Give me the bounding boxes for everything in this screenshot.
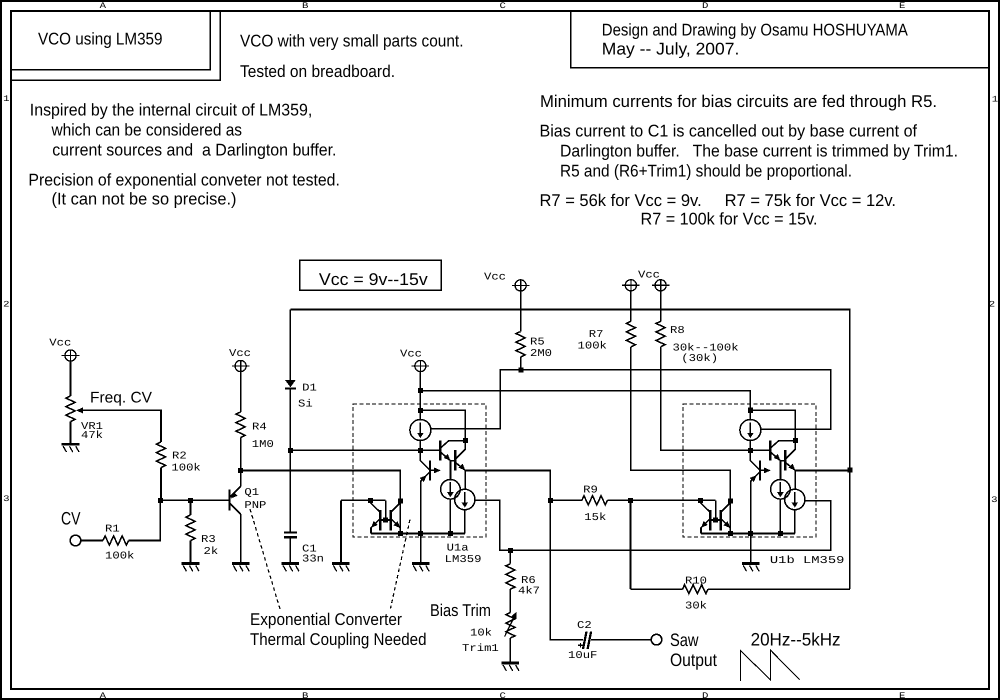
svg-text:A: A [100, 691, 108, 700]
wire U1a mirror input [341, 499, 386, 501]
svg-text:CV: CV [61, 509, 81, 529]
ground (C1) [282, 564, 300, 572]
U1a junction mirror-left collector [368, 498, 373, 503]
U1a mirror-right emitter [391, 519, 401, 534]
U1a PNP emitter diagonal [421, 472, 430, 534]
U1a mirror-right collector [391, 501, 401, 512]
U1b NPN1 emitter diagonal [770, 452, 780, 461]
U1a junction mirror-right collector [398, 498, 403, 503]
junction node U1b top [748, 408, 753, 413]
wire R4 to Q1 emitter node [240, 438, 242, 471]
U1b wire CS1 top branch to collector rail [750, 410, 795, 450]
leader to mirror pair [391, 520, 411, 609]
resistor R9 15k [582, 496, 608, 505]
svg-text:Output: Output [670, 650, 717, 670]
wire R5 to bias node [520, 357, 522, 370]
U1a transistor NPN1 base bar [439, 441, 441, 461]
U1b junction rail left [728, 531, 733, 536]
U1b junction CS1 top branch [748, 408, 753, 413]
U1b current source CS1 [740, 420, 761, 441]
wire C2 node to R9 [550, 499, 582, 501]
svg-text:R1: R1 [105, 524, 120, 536]
U1b wire CS2 to rail [779, 499, 781, 533]
ground (Trim1) [502, 663, 520, 671]
U1a junction CS1 top branch [418, 408, 423, 413]
wire U1a NPN2 emitter to C2 node [465, 471, 550, 501]
junction node R9/R10 [628, 498, 633, 503]
wire R9 to U1b mirror input [607, 499, 715, 501]
wire wiper to R2 [82, 410, 161, 442]
svg-text:B: B [302, 1, 308, 11]
U1b junction input node [748, 448, 753, 453]
U1a wire NPN1 emitter to NPN2 base [451, 460, 456, 462]
U1a mirror-left emitter arrow [371, 521, 378, 528]
svg-text:Precision of exponential conve: Precision of exponential conveter not te… [28, 171, 340, 190]
U1b junction collector rail [793, 438, 798, 443]
svg-text:2M0: 2M0 [530, 348, 552, 360]
U1b NPN1 emitter arrow [774, 454, 781, 461]
U1b mirror base link [710, 519, 721, 521]
trimmer Trim1 10k [505, 612, 517, 638]
U1b transistor PNP base bar [759, 460, 761, 480]
wire U1b top corner [749, 391, 751, 411]
svg-text:100k: 100k [171, 463, 200, 475]
wire R2 to base node [160, 468, 162, 501]
potentiometer VR1 47k [66, 396, 75, 422]
svg-text:Bias current to C1 is cancelle: Bias current to C1 is cancelled out by b… [540, 122, 918, 141]
wire C2 to output [591, 639, 651, 641]
svg-text:R7: R7 [589, 329, 604, 341]
U1b wire CS3 to rail [794, 510, 796, 534]
U1b ground [742, 564, 760, 572]
resistor R5 2M0 [516, 332, 525, 358]
svg-text:VCO with very small parts coun: VCO with very small parts count. [240, 32, 464, 51]
Q1 emitter arrow (PNP) [231, 492, 238, 499]
U1b emitter rail [701, 533, 795, 535]
U1a junction input node [418, 448, 423, 453]
resistor R3 2k [186, 515, 195, 541]
svg-text:10uF: 10uF [568, 650, 597, 662]
svg-text:1: 1 [3, 94, 9, 104]
wire D1 cathode to C1 [289, 388, 291, 531]
U1b wire rail to ground [750, 534, 752, 564]
wire C2 node down [550, 500, 583, 639]
U1a wire top feed [419, 391, 421, 420]
wire Q1 emitter up [240, 471, 242, 487]
wire U1a CS3 out [475, 500, 831, 550]
svg-text:2: 2 [3, 300, 9, 310]
U1b wire NPN1 emitter to CS2 [780, 461, 782, 480]
U1b PNP emitter diagonal [751, 472, 760, 534]
svg-text:20Hz--5kHz: 20Hz--5kHz [751, 630, 841, 650]
U1a wire rail to ground [420, 534, 422, 564]
U1b transistor mirror-right base bar [720, 510, 722, 531]
U1b wire CS1 to input node [749, 441, 751, 451]
wire Q1 collector to ground [240, 514, 242, 563]
junction node R5 bias [518, 367, 523, 372]
U1a wire NPN1 emitter to CS2 [450, 461, 452, 480]
svg-text:Vcc: Vcc [484, 272, 506, 284]
wire base rail to Q1 [160, 499, 229, 501]
svg-text:3: 3 [991, 495, 997, 505]
U1a NPN2 emitter diagonal [455, 462, 465, 470]
wire Vcc to VR1 [70, 361, 72, 396]
U1b junction mirror-right collector [728, 498, 733, 503]
wire Q1 node to U1a mirror [241, 471, 401, 501]
U1b dashed boundary [683, 404, 816, 537]
transistor Q1 base bar [228, 489, 230, 510]
U1a junction rail right [448, 531, 453, 536]
svg-text:R4: R4 [252, 422, 267, 434]
svg-text:Minimum currents for bias circ: Minimum currents for bias circuits are f… [540, 92, 937, 111]
U1b NPN1 collector [770, 441, 795, 449]
U1a current source CS3 [455, 489, 475, 509]
svg-text:Thermal Coupling Needed: Thermal Coupling Needed [250, 630, 427, 649]
svg-text:which can be considered as: which can be considered as [51, 121, 242, 140]
U1b junction rail right [778, 531, 783, 536]
wire to R10 [631, 588, 683, 590]
svg-text:4k7: 4k7 [518, 586, 540, 598]
output terminal Saw [651, 634, 662, 645]
svg-text:1: 1 [992, 95, 998, 105]
svg-text:Saw: Saw [670, 630, 699, 650]
junction node R1/R2 [158, 498, 163, 503]
junction node U1a top [418, 388, 423, 393]
U1b junction mirror base [713, 518, 718, 523]
svg-text:Darlington buffer. The base: Darlington buffer. The base current is t… [560, 142, 958, 161]
U1b wire top feed [749, 391, 751, 420]
wire Vcc to U1a top [419, 372, 421, 391]
svg-text:Exponential Converter: Exponential Converter [250, 610, 402, 629]
U1b transistor NPN1 base bar [769, 441, 771, 461]
wire bias to U1b CS [521, 370, 831, 429]
wire VR1 to ground [70, 422, 72, 445]
U1a junction mirror base [383, 518, 388, 523]
svg-text:C2: C2 [577, 620, 592, 632]
U1a wire mirror base to input wire [385, 500, 387, 520]
svg-text:D: D [702, 691, 708, 700]
resistor R4 1M0 [236, 412, 245, 438]
wire mirror input to ground [340, 500, 342, 563]
svg-text:A: A [100, 1, 108, 11]
wire R1 to corner up [129, 500, 161, 540]
wire R9 node down to R10 [630, 500, 632, 589]
U1a NPN1 emitter arrow [444, 454, 451, 461]
wire top rail from D1 [290, 310, 850, 471]
wire Vcc rail to U1b [420, 391, 750, 411]
wire D1 anode [289, 310, 291, 380]
U1a PNP emitter arrow [420, 475, 427, 482]
power Vcc symbol (R4) [232, 360, 250, 371]
U1b wire NPN1 emitter to NPN2 base [781, 460, 786, 462]
wire C1 to ground [289, 538, 291, 563]
svg-text:R10: R10 [685, 576, 707, 588]
wire Vcc to R7 [630, 291, 632, 321]
wire Vcc to R5 [520, 291, 522, 332]
U1b current source CS3 [785, 489, 805, 509]
U1a NPN2 collector diagonal [455, 449, 465, 459]
U1a junction rail left [398, 531, 403, 536]
svg-text:100k: 100k [105, 551, 134, 563]
wire CV terminal to R1 [81, 540, 103, 542]
wire U1b NPN2 emitter to right rail [795, 470, 850, 472]
svg-text:R9: R9 [583, 485, 598, 497]
U1a transistor mirror-right base bar [390, 510, 392, 531]
U1a ground [412, 564, 430, 572]
U1a PNP base lead arrow [430, 468, 441, 474]
U1b NPN2 collector diagonal [785, 449, 795, 459]
U1a mirror-right emitter arrow [393, 521, 400, 528]
svg-text:E: E [899, 691, 905, 700]
svg-text:R7 = 56k for Vcc = 9v. R7: R7 = 56k for Vcc = 9v. R7 = 75k for Vcc … [540, 191, 897, 210]
wire bias to U1a CS [431, 370, 521, 429]
svg-text:Vcc: Vcc [638, 270, 660, 282]
U1a wire input node to PNP collector [420, 450, 430, 470]
U1b mirror-left emitter arrow [701, 521, 708, 528]
U1a mirror-left collector [370, 500, 380, 512]
U1b PNP emitter arrow [750, 475, 757, 482]
junction node C2 tap [548, 498, 553, 503]
wire R10 to right rail [708, 588, 850, 590]
svg-text:Si: Si [298, 399, 313, 411]
power Vcc symbol (R5) [512, 280, 530, 291]
sawtooth waveform symbol [740, 650, 799, 681]
svg-text:10k: 10k [470, 628, 492, 640]
junction node U1b input [748, 448, 753, 453]
U1a wire NPN2 emitter to CS3 [464, 471, 466, 490]
junction node Q1 emitter [238, 468, 243, 473]
svg-text:U1b LM359: U1b LM359 [770, 555, 845, 567]
svg-text:3: 3 [3, 494, 9, 504]
U1a mirror-left emitter [371, 519, 380, 534]
svg-text:R3: R3 [201, 534, 216, 546]
wire to R3 [190, 500, 192, 515]
resistor R8 30k [656, 321, 665, 347]
svg-text:(It can not be so precise.): (It can not be so precise.) [52, 190, 237, 209]
svg-text:C: C [500, 691, 506, 700]
svg-text:Vcc: Vcc [229, 348, 251, 360]
U1b junction rail center [748, 531, 753, 536]
title box outer rect [11, 11, 220, 80]
ground (U1a input) [332, 564, 350, 572]
svg-text:33n: 33n [302, 554, 324, 566]
svg-text:R8: R8 [670, 325, 685, 337]
wire Trim1 to ground [509, 638, 511, 663]
svg-text:Design and Drawing by Osamu HO: Design and Drawing by Osamu HOSHUYAMA [602, 21, 909, 40]
junction node right rail [847, 468, 852, 473]
svg-text:VCO using LM359: VCO using LM359 [38, 30, 163, 49]
resistor R1 100k [103, 536, 129, 545]
U1a junction collector rail [463, 438, 468, 443]
svg-text:Tested on breadboard.: Tested on breadboard. [240, 62, 395, 81]
U1b wire collector drop [729, 501, 731, 534]
power Vcc symbol (U1a/U1b) [412, 360, 430, 371]
ground (Q1) [232, 564, 250, 572]
U1a emitter rail [371, 533, 465, 535]
power Vcc symbol (VR1) [62, 350, 80, 361]
resistor R10 30k [683, 585, 709, 594]
U1b NPN2 emitter arrow [789, 464, 796, 471]
svg-text:D1: D1 [302, 383, 317, 395]
U1a wire collector drop [399, 501, 401, 534]
capacitor C1 33n [284, 533, 297, 538]
wire Vcc to R4 [240, 372, 242, 412]
svg-text:Inspired by the internal circu: Inspired by the internal circuit of LM35… [30, 101, 313, 120]
junction node R3 tap [188, 498, 193, 503]
U1a NPN1 collector [440, 441, 465, 449]
U1a mirror base link [380, 519, 391, 521]
svg-text:D: D [702, 1, 708, 11]
wire R7 to U1b mirror [631, 347, 730, 501]
wire R6 tap down [509, 550, 511, 563]
svg-text:(30k): (30k) [681, 353, 718, 365]
U1b transistor mirror-left base bar [709, 510, 711, 531]
svg-text:15k: 15k [584, 512, 606, 524]
U1b mirror-right emitter arrow [723, 521, 730, 528]
svg-text:C: C [500, 1, 506, 11]
U1b mirror-right emitter [721, 519, 731, 534]
U1a NPN1 emitter diagonal [440, 452, 450, 461]
svg-text:47k: 47k [81, 430, 103, 442]
wire R3 to ground [190, 541, 192, 564]
U1a current source CS1 [410, 420, 431, 441]
U1b NPN2 emitter diagonal [785, 462, 795, 470]
svg-text:U1a: U1a [447, 543, 469, 555]
resistor R6 4k7 [506, 564, 515, 590]
svg-text:Vcc: Vcc [49, 338, 71, 350]
U1a wire CS1 to input node [419, 441, 421, 451]
svg-text:Freq. CV: Freq. CV [90, 390, 153, 407]
svg-text:LM359: LM359 [445, 554, 482, 566]
svg-text:R5 and (R6+Trim1) should be pr: R5 and (R6+Trim1) should be proportional… [560, 162, 852, 181]
wire right rail [849, 470, 851, 589]
VR1 wiper arrow [76, 408, 83, 414]
U1a dashed boundary [353, 404, 486, 537]
Q1 collector diagonal [230, 503, 241, 514]
power Vcc symbol (R7) [622, 280, 640, 291]
svg-text:current sources and a Darling: current sources and a Darlington buffer. [52, 140, 336, 159]
svg-text:E: E [899, 1, 905, 11]
Q1 emitter diagonal [230, 486, 241, 497]
svg-text:2k: 2k [204, 546, 219, 558]
U1b PNP base lead arrow [760, 468, 771, 474]
wire D1 node to U1a input [290, 449, 440, 451]
U1a wire CS3 to rail [464, 510, 466, 534]
ground (R3) [182, 564, 200, 572]
resistor R2 100k [157, 442, 166, 468]
capacitor C2 10uF [578, 632, 591, 650]
svg-text:1M0: 1M0 [252, 439, 274, 451]
wire R6 to Trim1 [509, 589, 511, 612]
U1a NPN2 emitter arrow [459, 464, 466, 471]
U1a transistor PNP base bar [429, 460, 431, 480]
junction node R6 tap [508, 548, 513, 553]
U1b wire input node to PNP collector [750, 450, 760, 470]
U1a transistor NPN2 base bar [454, 450, 456, 471]
svg-text:R2: R2 [172, 451, 187, 463]
svg-text:Vcc: Vcc [400, 349, 422, 361]
U1b mirror-right collector [721, 501, 731, 512]
svg-text:2: 2 [989, 300, 995, 310]
svg-text:Trim1: Trim1 [462, 643, 499, 655]
ground (VR1) [62, 444, 80, 452]
input terminal CV [70, 535, 81, 546]
svg-text:R5: R5 [530, 337, 545, 349]
svg-text:R7 = 100k for Vcc = 15v.: R7 = 100k for Vcc = 15v. [641, 210, 818, 229]
U1a current source CS2 [441, 480, 461, 500]
resistor R7 100k [626, 321, 635, 347]
U1a wire CS2 to rail [449, 499, 451, 533]
U1a wire CS1 top branch to collector rail [420, 410, 465, 450]
U1b current source CS2 [771, 480, 791, 500]
junction node D1/C1 [288, 448, 293, 453]
U1a transistor mirror-left base bar [379, 510, 381, 531]
U1a junction rail center [418, 531, 423, 536]
svg-text:Q1: Q1 [244, 487, 259, 499]
svg-text:B: B [302, 691, 308, 700]
U1b wire mirror base to input wire [715, 500, 717, 520]
wire Vcc to R8 [660, 291, 662, 321]
diode D1 Si [285, 380, 296, 389]
leader to Q1 [250, 509, 280, 609]
U1b mirror-left emitter [701, 519, 710, 534]
svg-text:Vcc = 9v--15v: Vcc = 9v--15v [319, 270, 428, 289]
wire R8 to U1b base [661, 347, 771, 451]
U1b junction mirror-left collector [698, 498, 703, 503]
U1b mirror-left collector [700, 500, 710, 512]
svg-text:30k: 30k [685, 601, 707, 613]
U1b transistor NPN2 base bar [784, 450, 786, 471]
designer box [571, 11, 990, 68]
U1b wire NPN2 emitter to CS3 [794, 471, 796, 490]
svg-text:Bias Trim: Bias Trim [430, 601, 491, 620]
svg-text:PNP: PNP [244, 500, 266, 512]
title box inner rect [11, 11, 210, 70]
Vcc range box [300, 260, 442, 290]
power Vcc symbol (R8) [652, 280, 670, 291]
svg-text:100k: 100k [578, 341, 607, 353]
svg-text:May -- July, 2007.: May -- July, 2007. [602, 40, 740, 59]
